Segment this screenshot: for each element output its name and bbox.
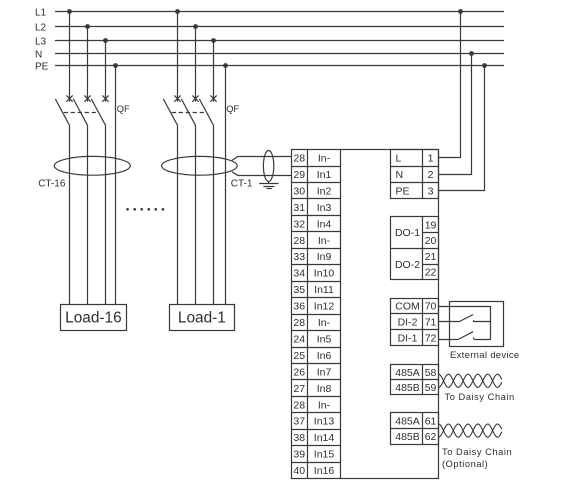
svg-text:L1: L1 (35, 8, 47, 19)
terminal 36 In12 (291, 297, 341, 299)
wire to load (105, 125, 107, 304)
svg-text:In-: In- (318, 235, 331, 247)
breaker blade (73, 99, 87, 125)
svg-text:26: 26 (293, 366, 305, 378)
svg-text:28: 28 (293, 399, 305, 411)
svg-text:(Optional): (Optional) (442, 459, 488, 469)
svg-text:In14: In14 (314, 432, 335, 444)
svg-text:35: 35 (293, 284, 305, 296)
terminal 30 In2 (291, 182, 341, 184)
svg-text:27: 27 (293, 383, 305, 395)
svg-text:To Daisy Chain: To Daisy Chain (442, 447, 512, 457)
svg-text:1: 1 (428, 153, 434, 165)
ellipsis (more circuits) (126, 208, 129, 211)
node junction group1 L1 (67, 9, 72, 14)
meter terminal block outline (292, 150, 439, 479)
svg-text:CT-16: CT-16 (38, 179, 66, 190)
current transformer CT-16 (54, 156, 130, 175)
svg-text:In13: In13 (314, 416, 335, 428)
svg-text:28: 28 (293, 317, 305, 329)
wire phase drop (87, 27, 89, 102)
svg-text:L3: L3 (35, 37, 47, 48)
svg-text:CT-1: CT-1 (231, 178, 253, 189)
node junction PE to terminal 3 wire (482, 63, 487, 68)
wire terminal 3 to PE (439, 66, 485, 191)
svg-text:In11: In11 (314, 284, 334, 296)
svg-text:59: 59 (425, 382, 437, 394)
svg-text:37: 37 (293, 416, 305, 428)
wire phase drop (177, 12, 179, 102)
svg-text:In4: In4 (317, 218, 332, 230)
svg-text:29: 29 (293, 169, 305, 181)
wire phase drop (105, 41, 107, 102)
svg-text:70: 70 (425, 301, 437, 313)
svg-text:QF: QF (226, 104, 239, 114)
CT-1 cable loop (263, 151, 273, 182)
wire CT-1 secondary upper to terminal 28 (232, 157, 291, 161)
node junction L1 to terminal 1 wire (458, 9, 463, 14)
wire DI-2 to switch (439, 321, 459, 323)
svg-text:485A: 485A (395, 415, 420, 427)
svg-text:21: 21 (425, 251, 437, 263)
svg-text:30: 30 (293, 185, 305, 197)
svg-text:PE: PE (35, 62, 49, 73)
wire phase drop (195, 27, 197, 102)
svg-text:33: 33 (293, 251, 305, 263)
wire phase drop (69, 12, 71, 102)
wire to load (87, 125, 89, 304)
twisted pair to daisy chain (439, 374, 502, 387)
svg-text:28: 28 (293, 153, 305, 165)
twisted pair to daisy chain (optional) (439, 424, 502, 437)
terminal 34 In10 (291, 264, 341, 266)
svg-text:In7: In7 (317, 366, 332, 378)
wire PE drop (225, 65, 227, 304)
terminal 35 In11 (291, 281, 341, 283)
breaker contact X (66, 95, 72, 101)
switch contact DI-1 (blade) (459, 332, 473, 339)
wire CT-1 secondary lower to terminal 29 (232, 172, 291, 176)
terminal block RS485 (pins 58-59) (391, 365, 439, 395)
breaker contact X (84, 95, 90, 101)
svg-text:DI-1: DI-1 (398, 332, 418, 344)
terminal 28 In- (291, 231, 341, 233)
switch contact DI-1 (fixed) (473, 337, 475, 339)
wire COM to external device (439, 307, 491, 340)
svg-text:COM: COM (395, 301, 420, 313)
svg-text:In12: In12 (314, 301, 335, 313)
net L2 bus (55, 26, 504, 28)
svg-text:485B: 485B (395, 382, 420, 394)
svg-text:3: 3 (428, 185, 434, 197)
breaker blade (91, 99, 105, 125)
svg-text:DO-2: DO-2 (395, 259, 420, 271)
node junction group2 PE (223, 63, 228, 68)
terminal 32 In4 (291, 215, 341, 217)
svg-text:20: 20 (425, 235, 437, 247)
svg-text:72: 72 (425, 332, 437, 344)
load box Load-1 (170, 305, 235, 331)
svg-text:In16: In16 (314, 465, 335, 477)
svg-text:In9: In9 (317, 251, 332, 263)
node junction group1 L2 (85, 24, 90, 29)
svg-text:To Daisy Chain: To Daisy Chain (445, 392, 515, 402)
net L3 bus (55, 40, 504, 42)
breaker blade (199, 99, 213, 125)
switch contact DI-2 (fixed) (473, 320, 475, 322)
net L1 bus (55, 11, 504, 13)
svg-text:485A: 485A (395, 367, 420, 379)
svg-text:2: 2 (428, 169, 434, 181)
wire DI-1 to switch (439, 339, 459, 341)
breaker contact X (210, 95, 216, 101)
svg-text:40: 40 (293, 465, 305, 477)
svg-text:L: L (396, 153, 402, 165)
svg-text:58: 58 (425, 367, 437, 379)
svg-text:19: 19 (425, 219, 437, 231)
wire to load (69, 125, 71, 304)
breaker blade (55, 99, 69, 125)
terminal 31 In3 (291, 198, 341, 200)
node junction group2 L3 (211, 38, 216, 43)
ground (CT-1 shield) (268, 182, 270, 184)
breaker blade (163, 99, 177, 125)
net PE bus (55, 65, 504, 67)
svg-text:22: 22 (425, 267, 437, 279)
svg-text:In-: In- (318, 317, 331, 329)
svg-text:DO-1: DO-1 (395, 227, 420, 239)
terminal 38 In14 (291, 429, 341, 431)
svg-text:25: 25 (293, 350, 305, 362)
svg-text:24: 24 (293, 333, 305, 345)
svg-text:28: 28 (293, 235, 305, 247)
terminal 25 In6 (291, 347, 341, 349)
svg-text:485B: 485B (395, 431, 420, 443)
terminal 39 In15 (291, 445, 341, 447)
svg-text:Load-1: Load-1 (178, 309, 226, 326)
svg-text:N: N (396, 169, 404, 181)
svg-text:In10: In10 (314, 268, 335, 280)
terminal 29 In1 (291, 166, 341, 168)
wire to load (195, 125, 197, 304)
svg-text:N: N (35, 50, 42, 61)
terminal 28 In- (291, 314, 341, 316)
terminal 40 In16 (291, 462, 341, 464)
left terminal column dividers (307, 150, 309, 479)
terminal 28 In- (291, 396, 341, 398)
wire terminal 1 to L1 (439, 12, 461, 158)
svg-text:In6: In6 (317, 350, 332, 362)
terminal 37 In13 (291, 412, 341, 414)
svg-text:L2: L2 (35, 23, 47, 34)
switch contact DI-2 (blade) (459, 315, 473, 322)
svg-text:PE: PE (396, 185, 410, 197)
svg-text:62: 62 (425, 431, 437, 443)
svg-text:32: 32 (293, 218, 305, 230)
svg-text:38: 38 (293, 432, 305, 444)
wire to load (213, 125, 215, 304)
breaker linkage dashed (172, 112, 207, 114)
terminal block L/N/PE (pins 1-3) (391, 150, 439, 199)
terminal 26 In7 (291, 363, 341, 365)
svg-text:In5: In5 (317, 333, 332, 345)
node junction group2 L1 (175, 9, 180, 14)
breaker linkage dashed (64, 112, 99, 114)
svg-text:71: 71 (425, 317, 437, 329)
wire to load (177, 125, 179, 304)
breaker contact X (174, 95, 180, 101)
wire phase drop (213, 41, 215, 102)
wire terminal 2 to N (439, 54, 472, 175)
breaker contact X (192, 95, 198, 101)
node junction group1 L3 (103, 38, 108, 43)
wire PE drop (115, 65, 117, 304)
terminal block DO-1/DO-2 (pins 19-22) (391, 217, 439, 280)
svg-text:In8: In8 (317, 383, 332, 395)
svg-text:39: 39 (293, 449, 305, 461)
terminal 33 In9 (291, 248, 341, 250)
svg-text:QF: QF (117, 104, 130, 114)
node junction N to terminal 2 wire (469, 51, 474, 56)
svg-text:In-: In- (318, 153, 331, 165)
terminal 27 In8 (291, 379, 341, 381)
current transformer CT-1 (162, 156, 238, 175)
svg-text:34: 34 (293, 268, 305, 280)
net N bus (55, 53, 504, 55)
svg-text:In2: In2 (317, 185, 332, 197)
node junction group1 PE (113, 63, 118, 68)
node junction group2 L2 (193, 24, 198, 29)
load box Load-16 (61, 305, 127, 331)
external device box (450, 302, 504, 347)
svg-text:DI-2: DI-2 (398, 317, 418, 329)
svg-text:In-: In- (318, 399, 331, 411)
svg-text:31: 31 (293, 202, 305, 214)
breaker blade (181, 99, 195, 125)
svg-text:36: 36 (293, 301, 305, 313)
svg-text:In3: In3 (317, 202, 332, 214)
terminal 24 In5 (291, 330, 341, 332)
breaker contact X (102, 95, 108, 101)
svg-text:Load-16: Load-16 (65, 309, 121, 326)
svg-text:External device: External device (450, 350, 519, 361)
svg-text:In1: In1 (317, 169, 332, 181)
svg-text:61: 61 (425, 415, 437, 427)
terminal block RS485 optional (pins 61-62) (391, 413, 439, 445)
svg-text:In15: In15 (314, 449, 335, 461)
terminal block COM/DI-2/DI-1 (pins 70-72) (391, 299, 439, 346)
